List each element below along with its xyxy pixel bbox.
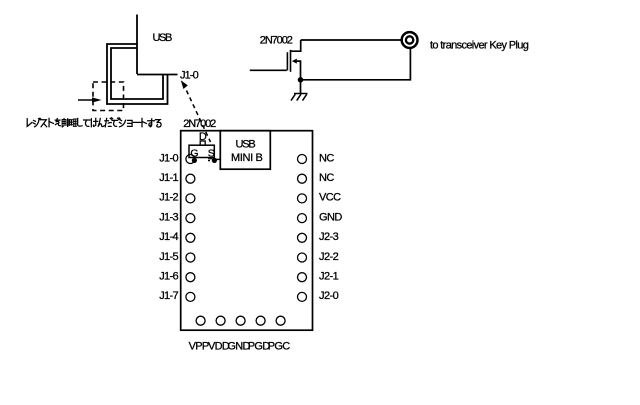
highlight box: dashed outline around pad to short [93,82,124,111]
transistor Q1 drain lead [290,40,300,51]
wire: USB shell to J1-0 label [137,74,178,76]
svg-text:to transceiver Key Plug: to transceiver Key Plug [430,39,529,51]
arrow pointing to shorted pad [78,97,102,102]
svg-text:J2-0: J2-0 [319,290,339,302]
svg-text:NC: NC [319,172,334,184]
svg-text:J2-3: J2-3 [319,231,339,243]
node: source-ground junction [298,77,304,83]
transistor Q2 gate solder dot [192,158,197,163]
pad J1-7 (left column) [186,292,195,301]
note text: peel resist and solder-short (Japanese) [27,118,161,127]
wire: key plug sleeve return to source [301,49,411,80]
svg-text:J2-2: J2-2 [319,251,339,263]
svg-text:PGC: PGC [268,341,290,353]
module PCB outline [181,131,313,331]
svg-text:S: S [208,148,215,160]
svg-text:VPP: VPP [189,341,209,353]
transistor Q1 channel bar [290,50,292,72]
svg-text:USB: USB [236,139,256,151]
pad J2-3 (right column) [298,233,307,242]
pad PGC (bottom row) [276,316,285,325]
pad J2-0 (right column) [298,292,307,301]
transistor Q2 source pin lead [208,159,212,161]
pad VPP (bottom row) [196,316,205,325]
pad NC (right column) [298,155,307,164]
svg-text:J1-1: J1-1 [159,172,178,184]
pad J2-2 (right column) [298,253,307,262]
wire: junction to ground [300,80,302,94]
svg-text:USB: USB [153,32,172,44]
svg-text:2N7002: 2N7002 [260,35,293,47]
pad PGD (bottom row) [256,316,265,325]
svg-text:J1-5: J1-5 [159,251,178,263]
pad J1-1 (left column) [186,174,195,183]
svg-text:J1-7: J1-7 [159,290,178,302]
svg-text:VCC: VCC [319,192,341,204]
pad GND (right column) [298,214,307,223]
pad J1-6 (left column) [186,273,195,282]
transistor Q2 body [189,145,214,157]
pad J1-0 (left column) [186,155,195,164]
pad J1-5 (left column) [186,253,195,262]
pad J2-1 (right column) [298,273,307,282]
wire: USB cable entering from top [136,15,138,75]
svg-text:J2-1: J2-1 [319,271,339,283]
dashed arrow from on-board 2N7002 to J1-0 [181,80,211,142]
pad VDD (bottom row) [216,316,225,325]
transistor Q1 source lead with arrow [292,59,301,80]
transistor Q1 gate wire [250,69,287,71]
ground (chassis) [291,94,308,101]
transistor Q2 drain pin [200,141,205,145]
svg-text:NC: NC [319,152,334,164]
wire: source dot to USB MINI B shell [214,158,220,160]
transistor Q2 source solder dot [212,158,217,163]
USB plug shell outer outline [107,44,168,104]
svg-text:J1-3: J1-3 [159,211,178,223]
pad J1-3 (left column) [186,214,195,223]
svg-text:GND: GND [319,211,342,223]
transistor Q1 gate bar [286,52,288,70]
svg-text:MINI B: MINI B [231,152,263,164]
connector: transceiver key plug (concentric rings) [402,32,418,48]
pad J1-4 (left column) [186,233,195,242]
pad NC (right column) [298,174,307,183]
svg-text:J1-2: J1-2 [159,192,178,204]
wire: drain to key plug tip [301,39,401,41]
pad J1-2 (left column) [186,194,195,203]
svg-text:J1-0: J1-0 [159,152,178,164]
svg-text:J1-0: J1-0 [180,69,199,81]
USB MINI B connector box [220,131,270,170]
pad GND (bottom row) [236,316,245,325]
pad VCC (right column) [298,194,307,203]
svg-text:J1-4: J1-4 [159,231,178,243]
svg-text:2N7002: 2N7002 [183,118,216,130]
svg-text:J1-6: J1-6 [159,271,178,283]
USB plug shell inner outline [111,48,163,99]
